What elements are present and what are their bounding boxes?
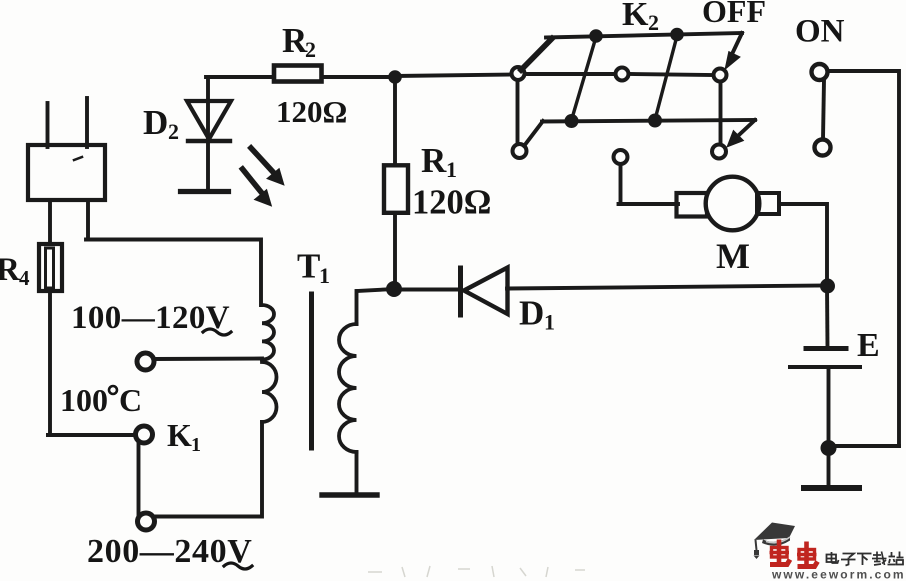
value 120 ohm (R1): [412, 184, 491, 222]
wire J4 to right rail: [829, 444, 900, 448]
faint page marks: [368, 566, 585, 577]
label E: [857, 327, 880, 364]
motor M: [614, 150, 828, 285]
red character chong 1: [770, 540, 791, 565]
K2 bottom junction dots: [565, 114, 579, 128]
ON actuator line: [823, 80, 824, 139]
label M: [716, 236, 750, 276]
dark glyph zhan: [888, 552, 904, 565]
K1 common wire: [48, 433, 134, 437]
svg-text:1: 1: [544, 310, 555, 335]
label 200-240V: [87, 533, 252, 570]
K2 left lever: [521, 39, 552, 71]
label 100-120V: [71, 300, 231, 336]
LED D2 light arrows: [243, 148, 284, 206]
label D2: [143, 103, 179, 144]
motor right brush box: [757, 193, 779, 214]
motor feed contact: [614, 150, 628, 164]
K2 lower-left contact D: [513, 144, 527, 158]
svg-text:R: R: [0, 252, 21, 288]
label R4: [0, 252, 30, 290]
battery E: [790, 285, 860, 450]
dark glyph zai: [872, 552, 887, 566]
K2 diag arrow to lower-right contact: [740, 120, 755, 134]
wire R1 to node J3: [393, 214, 397, 289]
switch ON: [812, 64, 900, 446]
node J1: [388, 70, 402, 84]
K1 lower contact: [138, 513, 155, 530]
svg-text:K: K: [622, 0, 649, 33]
wire battery to J4: [827, 369, 831, 450]
svg-text:120Ω: 120Ω: [412, 184, 491, 222]
wire primary bottom: [155, 422, 262, 517]
K2 lower-right contact F: [712, 145, 726, 159]
ground (battery): [804, 485, 859, 491]
K1 actuator: [137, 443, 141, 514]
wire J2 to battery: [825, 285, 829, 348]
wire J1 to K2: [395, 75, 513, 77]
K2 right lever with arrow: [733, 33, 742, 52]
K2 bottom rail: [542, 120, 755, 122]
svg-text:K: K: [167, 417, 192, 453]
svg-text:T: T: [297, 247, 320, 286]
wire J4 down: [827, 449, 831, 484]
K2 center contact B: [616, 68, 629, 81]
wire plug right lead: [86, 200, 261, 305]
LED D2: [181, 78, 232, 192]
svg-text:100: 100: [60, 382, 108, 418]
T1 primary tap contact: [137, 353, 154, 370]
svg-text:E: E: [857, 327, 880, 364]
node J4: [821, 440, 837, 456]
dark glyph dian: [827, 552, 839, 563]
graduation cap: [754, 523, 796, 560]
wire secondary bottom: [355, 452, 359, 493]
battery plate long: [790, 365, 860, 369]
K2 moving contact 2: [655, 36, 677, 120]
T1 core: [309, 294, 314, 448]
svg-text:D: D: [519, 294, 544, 333]
label 100 C: [60, 382, 142, 418]
node J2: [820, 279, 835, 294]
resistor R1: [384, 165, 408, 213]
svg-text:120Ω: 120Ω: [276, 94, 347, 129]
wire D2 to R2: [206, 75, 273, 79]
mains plug: [28, 98, 105, 200]
svg-text:OFF: OFF: [702, 0, 766, 29]
wire R2 to node J1: [322, 75, 396, 79]
ON lower contact: [815, 140, 831, 156]
wire J3 to D1: [394, 288, 460, 292]
transformer T1: [137, 289, 394, 517]
ON upper contact: [812, 64, 828, 80]
svg-text:www.eeworm.com: www.eeworm.com: [771, 568, 906, 581]
K2 moving contact 1: [572, 37, 597, 120]
wire plug left lead: [48, 200, 52, 244]
label D1: [519, 294, 555, 335]
battery plate short: [806, 346, 846, 351]
T1 primary coil lower: [262, 362, 277, 422]
T1 primary tap wire: [154, 357, 262, 361]
diode D1: [461, 268, 508, 316]
svg-text:1: 1: [446, 157, 457, 182]
svg-text:R: R: [421, 141, 447, 180]
label R2: [282, 21, 316, 62]
T1 secondary coil: [339, 324, 357, 452]
wire R4 to K1: [48, 291, 136, 435]
motor left brush box: [677, 193, 708, 217]
svg-text:4: 4: [19, 266, 30, 290]
dark glyph zi: [841, 554, 856, 566]
svg-text:M: M: [716, 236, 750, 276]
red character chong 2: [797, 542, 818, 567]
label T1: [297, 247, 330, 289]
resistor R4: [39, 244, 62, 291]
wire motor to node J2: [779, 204, 827, 285]
wire ON to right rail: [828, 71, 899, 446]
K2 middle rail: [525, 74, 713, 75]
svg-text:2: 2: [648, 10, 659, 35]
K2 top rail: [546, 33, 742, 38]
label R1: [421, 141, 457, 182]
label OFF: [702, 0, 766, 29]
K2 top junction dots: [589, 29, 603, 43]
label ON: [795, 14, 845, 50]
wire J1 down to R1: [393, 77, 397, 164]
K2 left pole wire down: [516, 80, 520, 144]
K2 pole contact A: [512, 67, 525, 80]
K2 right contact C: [714, 69, 727, 82]
switch K2: [512, 28, 756, 159]
dark glyph xia: [857, 554, 872, 566]
watermark logo: [754, 523, 906, 581]
svg-text:D: D: [143, 103, 168, 142]
value 120 ohm (R2): [276, 94, 347, 129]
node J3: [386, 281, 402, 297]
wire J3 to secondary top: [358, 289, 394, 291]
K1 upper contact: [136, 426, 153, 443]
thermostat switch K1: [48, 426, 155, 530]
wire D1 to node J2: [507, 286, 827, 289]
svg-text:ON: ON: [795, 14, 845, 50]
K2 diag to lower-left contact: [524, 121, 543, 146]
url: [771, 568, 906, 581]
svg-text:1: 1: [319, 263, 330, 288]
label K1: [167, 417, 201, 456]
T1 primary coil upper: [262, 305, 274, 360]
K2 right pole wire down: [719, 82, 723, 144]
label K2: [622, 0, 659, 35]
svg-text:2: 2: [305, 37, 316, 62]
ground (secondary): [322, 492, 377, 497]
svg-text:2: 2: [168, 119, 179, 144]
resistor R2: [274, 66, 322, 82]
svg-text:C: C: [119, 382, 142, 418]
primary top winding: [355, 291, 359, 324]
svg-text:1: 1: [191, 434, 201, 456]
motor body: [706, 177, 760, 231]
wire contact to motor: [619, 164, 679, 204]
